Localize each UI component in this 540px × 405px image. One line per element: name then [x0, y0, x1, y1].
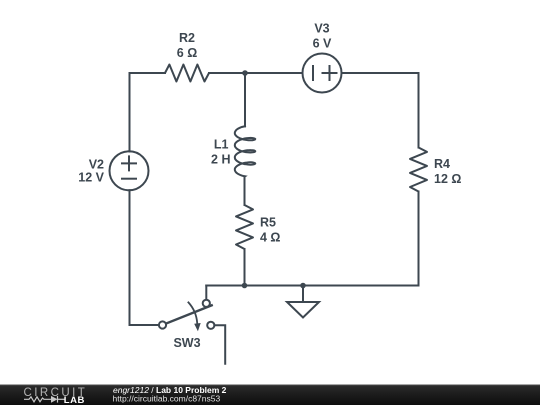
- ground symbol triangle: [287, 302, 319, 318]
- wire right vertical lower: [418, 192, 420, 286]
- resistor R5: [236, 205, 253, 249]
- V3 minus polarity mark: [312, 66, 314, 80]
- svg-text:12 V: 12 V: [78, 171, 104, 185]
- wire R2 to V3: [209, 72, 302, 74]
- switch SW3 lower throw contact: [207, 322, 214, 329]
- svg-text:SW3: SW3: [173, 336, 200, 350]
- voltage source V2: [110, 151, 149, 190]
- switch SW3 top throw contact: [203, 300, 210, 307]
- logo resistor-diode line: [24, 396, 65, 403]
- footer bar: [0, 385, 540, 405]
- wire L1 to R5: [244, 177, 246, 206]
- wire R5 to bottom junction: [244, 249, 246, 286]
- wire right vertical upper: [418, 73, 420, 148]
- wire middle branch top: [244, 73, 246, 126]
- svg-text:12 Ω: 12 Ω: [434, 172, 461, 186]
- switch SW3 common contact: [159, 321, 166, 328]
- V3 plus polarity mark: [323, 66, 337, 80]
- wire left vertical upper: [129, 73, 131, 152]
- switch SW3 lever: [166, 305, 212, 323]
- V2 minus polarity mark: [122, 178, 136, 180]
- svg-text:http://circuitlab.com/c87ns53: http://circuitlab.com/c87ns53: [113, 394, 221, 404]
- resistor R2: [165, 65, 209, 82]
- voltage source V3: [303, 54, 342, 93]
- ground symbol stub wire: [302, 286, 304, 303]
- svg-text:LAB: LAB: [64, 395, 85, 405]
- svg-text:V3: V3: [314, 22, 329, 36]
- svg-text:R2: R2: [179, 31, 195, 45]
- svg-text:2 H: 2 H: [211, 153, 230, 167]
- V2 plus polarity mark: [122, 156, 136, 170]
- wire bottom horizontal: [206, 285, 418, 287]
- inductor L1: [235, 126, 255, 176]
- svg-text:4 Ω: 4 Ω: [260, 231, 280, 245]
- svg-text:6 V: 6 V: [313, 37, 332, 51]
- wire left vertical lower: [130, 190, 159, 325]
- switch SW3 actuator arc: [188, 302, 197, 323]
- node junction bottom-middle: [242, 283, 248, 289]
- svg-text:R5: R5: [260, 216, 276, 230]
- resistor R4: [410, 148, 427, 192]
- svg-text:R4: R4: [434, 157, 450, 171]
- svg-text:6 Ω: 6 Ω: [177, 46, 197, 60]
- wire from lower throw contact: [214, 325, 225, 363]
- wire top-left horizontal: [130, 72, 166, 74]
- node junction ground: [300, 283, 306, 289]
- svg-text:V2: V2: [89, 158, 104, 172]
- node junction top: [242, 70, 248, 76]
- svg-text:L1: L1: [214, 138, 229, 152]
- switch arrow head: [194, 323, 201, 331]
- wire stub to switch top contact: [205, 286, 207, 300]
- wire V3 to top-right corner: [342, 72, 419, 74]
